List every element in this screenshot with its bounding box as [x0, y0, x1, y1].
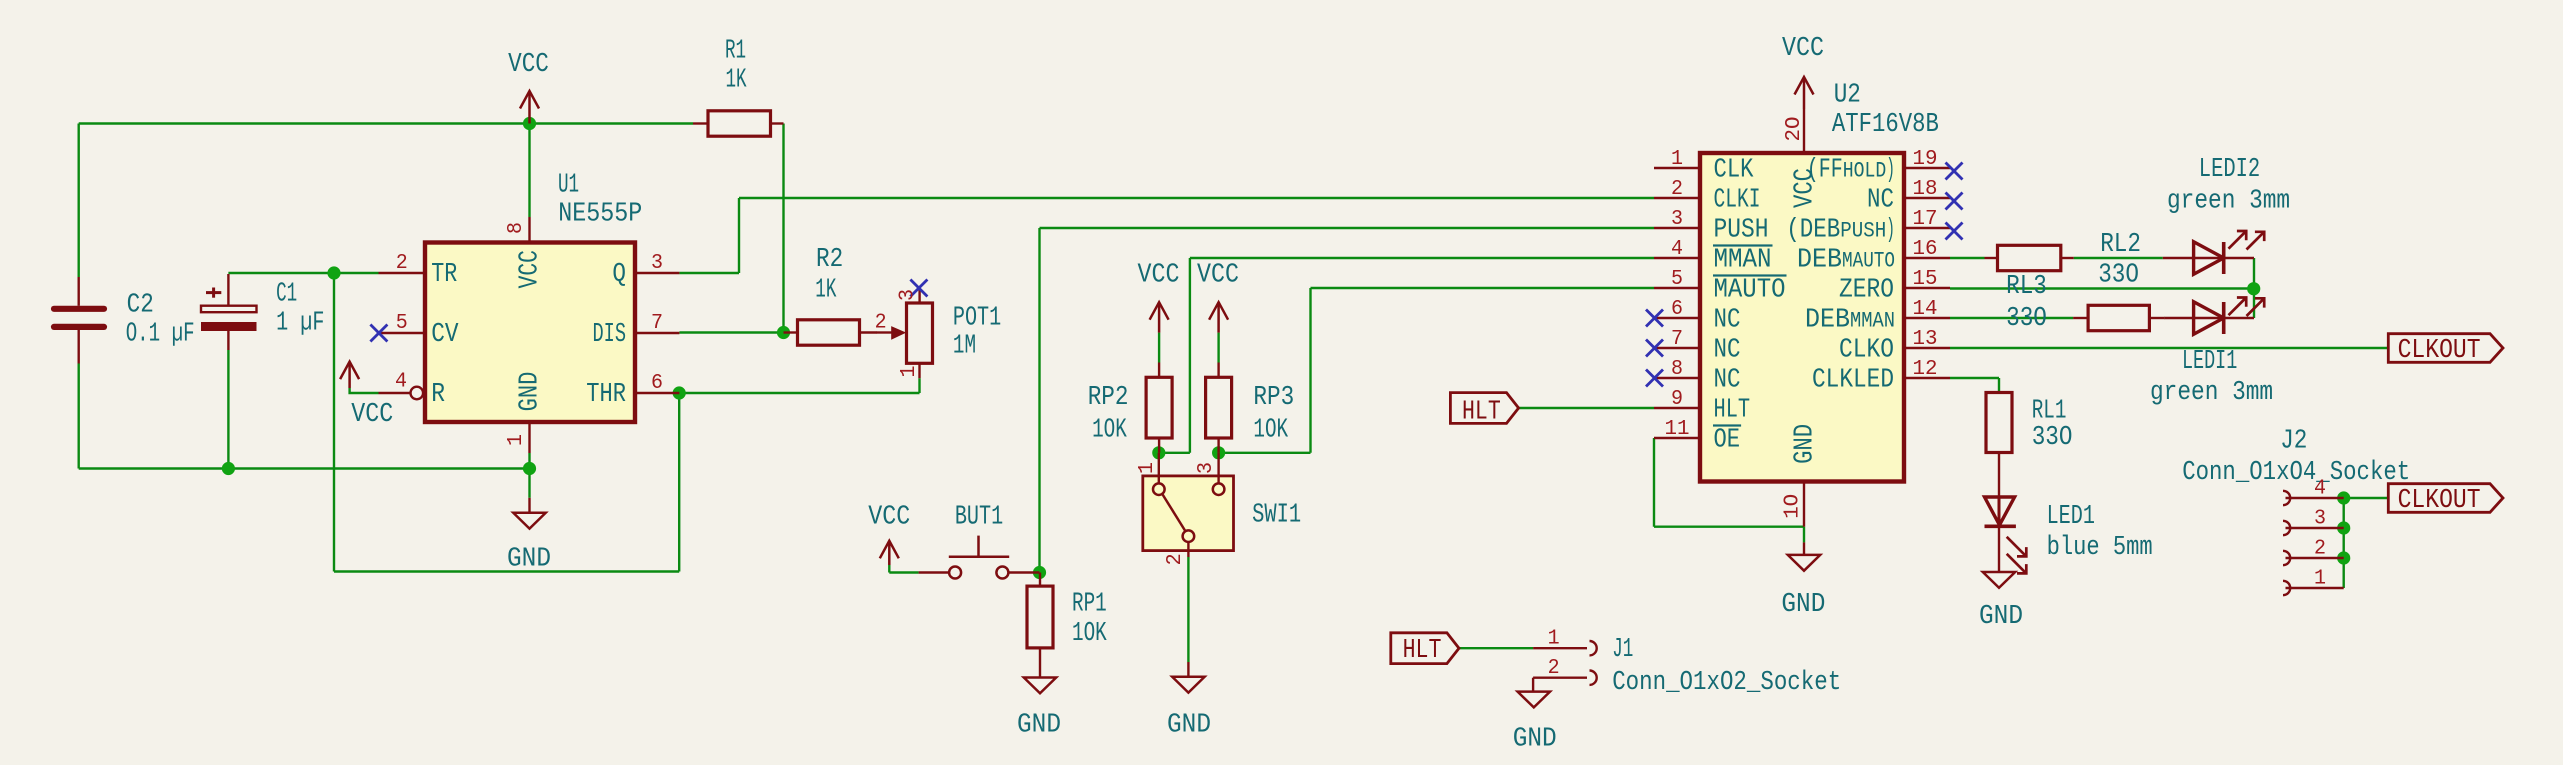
- svg-text:VCC: VCC: [1138, 260, 1180, 290]
- svg-text:GND: GND: [1167, 710, 1211, 740]
- svg-text:RL1: RL1: [2032, 397, 2067, 427]
- svg-text:MAUTO: MAUTO: [1714, 276, 1786, 306]
- svg-text:NC: NC: [1867, 186, 1894, 216]
- svg-text:NC: NC: [1714, 336, 1741, 366]
- svg-text:LEDI1: LEDI1: [2182, 347, 2237, 377]
- svg-text:R: R: [431, 380, 445, 410]
- svg-text:LED1: LED1: [2047, 502, 2095, 532]
- svg-text:1: 1: [2314, 568, 2326, 591]
- svg-text:GND: GND: [516, 372, 546, 412]
- svg-text:2: 2: [1548, 657, 1560, 680]
- svg-text:VCC: VCC: [1197, 260, 1239, 290]
- svg-text:7: 7: [1671, 328, 1683, 351]
- svg-text:CLKOUT: CLKOUT: [2398, 336, 2481, 366]
- svg-text:8: 8: [1671, 358, 1683, 381]
- svg-text:13: 13: [1913, 328, 1938, 351]
- svg-text:RP3: RP3: [1253, 383, 1294, 413]
- svg-text:THR: THR: [586, 380, 626, 410]
- svg-text:VCC: VCC: [868, 503, 910, 533]
- svg-text:U1: U1: [558, 171, 579, 201]
- svg-text:33O: 33O: [2032, 423, 2073, 453]
- svg-text:3: 3: [2314, 508, 2326, 531]
- svg-text:3: 3: [1195, 462, 1218, 474]
- svg-text:NC: NC: [1714, 306, 1741, 336]
- svg-text:MMAN: MMAN: [1850, 309, 1895, 334]
- svg-text:2: 2: [875, 312, 887, 335]
- svg-text:12: 12: [1913, 358, 1938, 381]
- svg-text:1OK: 1OK: [1072, 619, 1107, 649]
- svg-text:RL2: RL2: [2100, 230, 2141, 260]
- svg-text:3: 3: [897, 289, 920, 301]
- svg-text:3: 3: [651, 252, 663, 275]
- svg-text:6: 6: [651, 372, 663, 395]
- svg-text:1: 1: [1136, 462, 1159, 474]
- svg-text:POT1: POT1: [953, 304, 1001, 334]
- svg-text:DIS: DIS: [593, 320, 627, 350]
- svg-text:1K: 1K: [815, 276, 837, 306]
- svg-text:OE: OE: [1714, 426, 1741, 456]
- svg-text:14: 14: [1913, 298, 1938, 321]
- svg-text:blue 5mm: blue 5mm: [2047, 533, 2153, 563]
- svg-text:Q: Q: [612, 260, 626, 290]
- svg-text:DEB: DEB: [1805, 306, 1850, 336]
- svg-text:U2: U2: [1834, 80, 1861, 110]
- svg-text:VCC: VCC: [516, 250, 546, 289]
- svg-text:4: 4: [1671, 238, 1683, 261]
- svg-text:RL3: RL3: [2006, 272, 2047, 302]
- svg-text:GND: GND: [1513, 725, 1557, 755]
- svg-text:CV: CV: [431, 320, 459, 350]
- svg-text:NC: NC: [1714, 366, 1741, 396]
- svg-text:1O: 1O: [1782, 494, 1805, 519]
- svg-text:SWI1: SWI1: [1252, 500, 1301, 530]
- svg-text:1OK: 1OK: [1092, 415, 1127, 445]
- svg-text:1M: 1M: [953, 332, 976, 362]
- svg-text:2: 2: [1671, 178, 1683, 201]
- svg-text:VCC: VCC: [508, 50, 549, 80]
- svg-text:2: 2: [2314, 538, 2326, 561]
- svg-text:CLKO: CLKO: [1839, 336, 1894, 366]
- svg-text:GND: GND: [1979, 602, 2023, 632]
- svg-text:HLT: HLT: [1462, 398, 1501, 428]
- svg-text:16: 16: [1913, 238, 1938, 261]
- svg-text:33O: 33O: [2006, 304, 2047, 334]
- svg-text:17: 17: [1913, 208, 1938, 231]
- svg-text:7: 7: [651, 312, 663, 335]
- svg-text:(DEB: (DEB: [1786, 216, 1840, 246]
- svg-text:CLK: CLK: [1714, 156, 1755, 186]
- svg-text:ATF16V8B: ATF16V8B: [1832, 110, 1939, 140]
- svg-text:BUT1: BUT1: [955, 503, 1003, 533]
- svg-text:2: 2: [1164, 553, 1187, 565]
- svg-text:J2: J2: [2280, 426, 2307, 456]
- svg-text:18: 18: [1913, 178, 1938, 201]
- svg-text:HOLD: HOLD: [1843, 159, 1887, 184]
- svg-text:HLT: HLT: [1714, 396, 1751, 426]
- svg-text:HLT: HLT: [1403, 636, 1442, 666]
- svg-text:6: 6: [1671, 298, 1683, 321]
- svg-text:RP1: RP1: [1072, 590, 1107, 620]
- svg-text:LEDI2: LEDI2: [2199, 155, 2260, 185]
- svg-text:1: 1: [898, 366, 921, 378]
- svg-text:TR: TR: [431, 260, 457, 290]
- svg-text:3: 3: [1671, 208, 1683, 231]
- svg-text:1: 1: [505, 434, 528, 446]
- svg-text:CLKI: CLKI: [1714, 186, 1761, 216]
- svg-text:15: 15: [1913, 268, 1938, 291]
- svg-text:NE555P: NE555P: [558, 199, 642, 229]
- svg-text:PUSH: PUSH: [1840, 219, 1886, 244]
- svg-text:GND: GND: [1781, 590, 1825, 620]
- svg-text:2: 2: [396, 252, 408, 275]
- svg-text:VCC: VCC: [351, 400, 393, 430]
- svg-text:4: 4: [2314, 478, 2326, 501]
- svg-text:1: 1: [1548, 628, 1560, 651]
- svg-text:19: 19: [1913, 148, 1938, 171]
- svg-text:MAUTO: MAUTO: [1842, 249, 1895, 274]
- svg-text:11: 11: [1665, 418, 1690, 441]
- svg-text:J1: J1: [1612, 635, 1633, 665]
- svg-text:1: 1: [1671, 148, 1683, 171]
- svg-text:Conn_O1xO2_Socket: Conn_O1xO2_Socket: [1612, 668, 1841, 698]
- svg-text:R1: R1: [725, 37, 746, 67]
- svg-text:PUSH: PUSH: [1714, 216, 1769, 246]
- svg-text:C1: C1: [276, 280, 297, 310]
- svg-text:): ): [1886, 156, 1895, 186]
- svg-text:GND: GND: [507, 545, 551, 575]
- svg-text:1K: 1K: [726, 65, 748, 95]
- svg-text:DEB: DEB: [1797, 246, 1842, 276]
- svg-text:GND: GND: [1017, 710, 1061, 740]
- svg-text:2O: 2O: [1783, 117, 1806, 142]
- svg-text:RP2: RP2: [1088, 383, 1129, 413]
- svg-text:MMAN: MMAN: [1714, 246, 1772, 276]
- svg-text:VCC: VCC: [1791, 168, 1821, 208]
- svg-text:CLKLED: CLKLED: [1812, 366, 1894, 396]
- svg-text:GND: GND: [1791, 424, 1821, 464]
- svg-text:ZERO: ZERO: [1839, 276, 1894, 306]
- svg-text:Conn_O1xO4_Socket: Conn_O1xO4_Socket: [2182, 458, 2410, 488]
- svg-text:VCC: VCC: [1782, 34, 1824, 64]
- svg-text:8: 8: [505, 222, 528, 234]
- svg-text:O.1 µF: O.1 µF: [126, 320, 195, 350]
- svg-text:9: 9: [1671, 388, 1683, 411]
- svg-text:5: 5: [1671, 268, 1683, 291]
- svg-text:CLKOUT: CLKOUT: [2398, 486, 2481, 516]
- svg-text:green 3mm: green 3mm: [2167, 187, 2290, 217]
- svg-text:5: 5: [396, 312, 408, 335]
- svg-text:C2: C2: [127, 290, 154, 320]
- svg-text:R2: R2: [816, 245, 843, 275]
- svg-text:green 3mm: green 3mm: [2150, 378, 2273, 408]
- svg-text:4: 4: [395, 370, 407, 393]
- svg-text:): ): [1886, 216, 1895, 246]
- svg-text:1OK: 1OK: [1253, 415, 1288, 445]
- svg-text:33O: 33O: [2098, 261, 2139, 291]
- svg-text:1 µF: 1 µF: [276, 309, 324, 339]
